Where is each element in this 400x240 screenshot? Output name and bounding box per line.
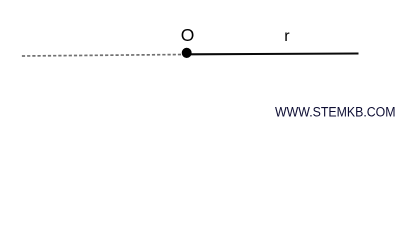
dashed extension line [22,55,183,57]
svg-text:r: r [284,28,290,45]
point O dot [182,48,192,58]
svg-text:O: O [181,25,195,45]
ray r line [189,52,359,55]
svg-text:WWW.STEMKB.COM: WWW.STEMKB.COM [275,104,396,120]
